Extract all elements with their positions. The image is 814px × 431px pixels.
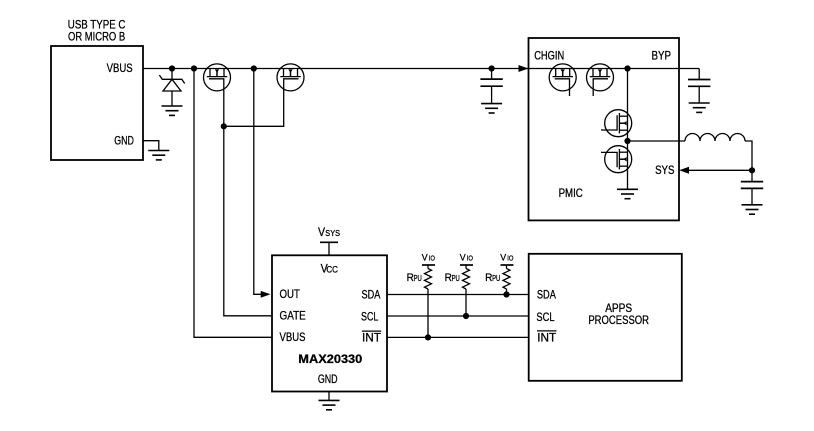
- resistor RPU 1 (pull-up on INT): [425, 269, 432, 290]
- wire gate of PFET2 down and across to gate node: [224, 90, 284, 126]
- node junction RPU3-SDA: [503, 291, 509, 297]
- svg-text:IO: IO: [507, 256, 514, 263]
- svg-text:PU: PU: [492, 274, 500, 283]
- svg-text:INT: INT: [537, 331, 556, 345]
- node junction OUT tap between PFETs: [251, 65, 257, 71]
- svg-text:IO: IO: [467, 256, 474, 263]
- svg-text:V: V: [500, 253, 507, 264]
- wire BYP node down through buck FETs to ground: [627, 69, 629, 190]
- svg-text:VBUS: VBUS: [107, 61, 133, 75]
- wire VBUS rail from USB to PMIC and BYP cap: [143, 68, 699, 70]
- resistor RPU 2 (pull-up on SCL): [463, 269, 470, 290]
- wire RPU1 to INT bus: [427, 289, 429, 337]
- transistor external PFET 2 (mirrored): [277, 64, 304, 91]
- svg-text:CHGIN: CHGIN: [534, 48, 564, 62]
- svg-text:OUT: OUT: [280, 287, 300, 301]
- svg-text:GND: GND: [114, 134, 134, 148]
- ground symbol below MAX20330: [319, 400, 340, 409]
- wire GND of USB connector: [143, 141, 159, 151]
- USB connector box: [51, 46, 143, 160]
- inductor: [685, 134, 745, 141]
- svg-text:PMIC: PMIC: [559, 186, 584, 200]
- svg-text:V: V: [422, 253, 429, 264]
- wire gate node down to MAX20330 GATE pin: [224, 126, 272, 315]
- svg-text:V: V: [460, 253, 467, 264]
- svg-text:SYS: SYS: [655, 163, 675, 177]
- wire OUT tap down to MAX20330 OUT pin: [254, 69, 262, 295]
- arrowhead into PMIC SYS pin: [679, 167, 689, 174]
- wire VBUS tap down to MAX20330 VBUS pin: [194, 69, 272, 338]
- arrowhead into MAX20330 OUT pin: [261, 291, 271, 298]
- node junction RPU1-INT: [425, 334, 431, 340]
- svg-text:INT: INT: [362, 330, 381, 344]
- svg-text:IO: IO: [429, 256, 436, 263]
- VIO supply bar 2: [460, 265, 473, 269]
- wire switch node to inductor: [628, 140, 686, 142]
- APPS PROCESSOR name label: [588, 301, 649, 327]
- MAX20330 box: [272, 255, 387, 391]
- ground symbol at SYS cap: [742, 205, 763, 214]
- svg-text:VBUS: VBUS: [280, 330, 306, 344]
- node junction zener/VBUS: [169, 65, 175, 71]
- capacitor at SYS: [741, 170, 763, 205]
- wire SYS node back to PMIC SYS pin: [688, 169, 752, 171]
- svg-text:PU: PU: [452, 274, 460, 283]
- wire RPU3 to SDA bus: [506, 289, 508, 295]
- svg-text:MAX20330: MAX20330: [298, 352, 362, 366]
- svg-text:PROCESSOR: PROCESSOR: [588, 313, 649, 327]
- svg-text:SDA: SDA: [537, 287, 556, 301]
- node junction CHGIN input cap: [489, 65, 495, 71]
- svg-text:V: V: [318, 225, 325, 239]
- arrowhead into PMIC CHGIN pin: [519, 65, 529, 72]
- wire inductor to SYS node: [745, 141, 752, 170]
- ground symbol at CHGIN cap: [481, 104, 502, 113]
- capacitor at BYP: [688, 69, 710, 104]
- capacitor at CHGIN input: [480, 69, 502, 104]
- wire MAX20330 GND to ground: [328, 392, 330, 401]
- svg-text:OR MICRO B: OR MICRO B: [68, 30, 125, 44]
- wire SCL bus: [387, 315, 529, 317]
- transistor PMIC internal PFET B (mirrored): [587, 64, 614, 96]
- svg-text:GND: GND: [318, 372, 338, 386]
- svg-text:PU: PU: [414, 274, 422, 283]
- node junction buck switch node: [624, 138, 630, 144]
- ground symbol at USB GND: [148, 151, 169, 160]
- node gate junction: [221, 123, 227, 129]
- node junction RPU2-SCL: [463, 313, 469, 319]
- transistor PMIC internal PFET A: [549, 64, 576, 96]
- svg-text:BYP: BYP: [652, 48, 672, 62]
- svg-text:SCL: SCL: [536, 310, 554, 324]
- VIO supply bar 3: [501, 265, 514, 269]
- transistor PMIC buck high-side FET (vertical): [601, 110, 632, 137]
- VSYS supply bar: [320, 242, 338, 255]
- transistor external PFET 1: [204, 64, 231, 91]
- node junction SYS: [749, 167, 755, 173]
- svg-text:CC: CC: [326, 264, 338, 274]
- ground symbol below buck FETs: [617, 189, 638, 198]
- node junction VBUS sense tap: [191, 65, 197, 71]
- svg-text:SDA: SDA: [362, 287, 381, 301]
- ground symbol at BYP cap: [689, 103, 710, 112]
- resistor RPU 3 (pull-up on SDA): [503, 269, 510, 290]
- pin label INT (APPS) with overline: [537, 331, 557, 345]
- USB connector title text: [68, 18, 126, 44]
- wire gate of PFET1 down to gate node: [223, 90, 225, 126]
- zener TVS diode on VBUS: [159, 69, 184, 107]
- svg-text:GATE: GATE: [280, 309, 306, 323]
- PMIC box: [529, 38, 680, 220]
- wire SDA bus: [387, 294, 529, 296]
- transistor PMIC buck low-side FET (vertical mirrored): [601, 146, 632, 173]
- svg-text:SCL: SCL: [361, 310, 379, 324]
- wire INT bus: [387, 336, 529, 338]
- APPS PROCESSOR box: [529, 254, 682, 381]
- pin label INT (MAX20330) with overline: [362, 330, 381, 344]
- node junction BYP rail: [624, 65, 630, 71]
- wire RPU2 to SCL bus: [465, 289, 467, 316]
- ground symbol at zener: [162, 106, 183, 115]
- VIO supply bar 1: [422, 265, 435, 269]
- svg-text:SYS: SYS: [325, 228, 340, 238]
